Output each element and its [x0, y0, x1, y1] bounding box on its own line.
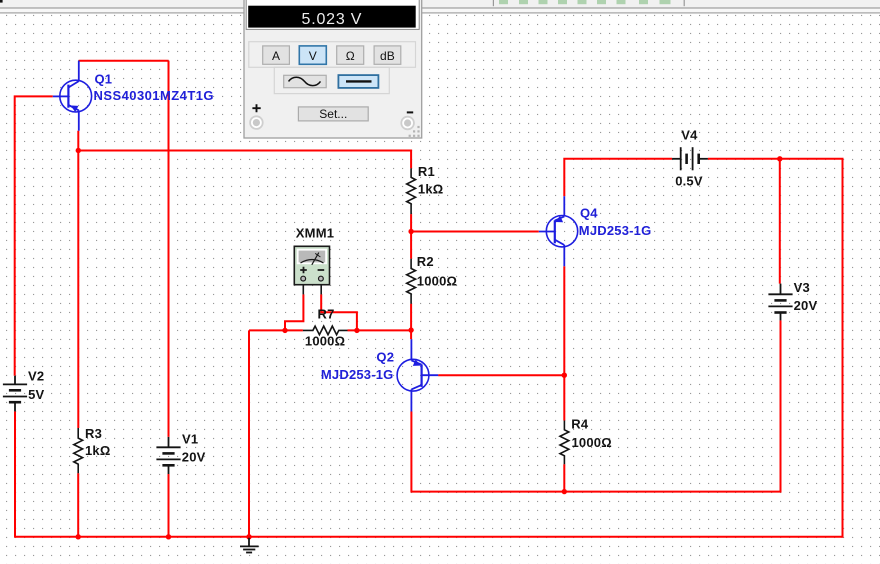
wire R4 bottom: [563, 464, 565, 491]
wire Q1 collector top loop: [79, 60, 169, 62]
svg-text:MJD253-1G: MJD253-1G: [579, 223, 652, 238]
svg-text:Ω: Ω: [346, 49, 355, 63]
battery V1: [156, 437, 180, 474]
battery V4: [672, 147, 708, 170]
svg-text:V1: V1: [182, 431, 198, 446]
button Set...: [298, 107, 368, 121]
svg-text:5.023 V: 5.023 V: [302, 11, 363, 28]
svg-text:1kΩ: 1kΩ: [85, 443, 110, 458]
junction XMM1 right on mid rail: [354, 328, 359, 333]
svg-text:R1: R1: [418, 164, 435, 179]
svg-text:V2: V2: [28, 369, 44, 384]
wire V4 left to Q4 top: [564, 159, 672, 196]
battery V2: [3, 376, 27, 412]
svg-text:dB: dB: [380, 49, 395, 63]
wire main mid rail left of R7: [249, 329, 303, 331]
resize grip: [409, 126, 420, 137]
resistor R7: [303, 326, 348, 335]
junction Q2 base on Q4-R4 vertical: [562, 373, 567, 378]
svg-text:R7: R7: [318, 307, 335, 322]
wire V1 riser: [168, 61, 170, 437]
svg-text:5V: 5V: [28, 387, 44, 402]
junction R1-R2-Q4 base node: [408, 229, 413, 234]
svg-text:V: V: [309, 49, 317, 63]
wire R1 bottom to R2 top: [410, 214, 412, 259]
multimeter display bezel: [246, 0, 419, 29]
svg-text:Q1: Q1: [95, 71, 113, 86]
svg-text:1000Ω: 1000Ω: [417, 273, 457, 288]
resistor R4: [560, 421, 569, 465]
multimeter display: [248, 6, 416, 28]
button A: [263, 46, 290, 64]
svg-text:0.5V: 0.5V: [675, 173, 703, 188]
wire R2 bottom to Q2 collector: [410, 304, 412, 340]
plus terminal label: [252, 104, 260, 112]
wire R3 bottom: [77, 473, 79, 537]
junction R2 bottom / mid rail: [408, 327, 413, 332]
wire ground riser: [248, 330, 250, 536]
svg-text:1000Ω: 1000Ω: [572, 435, 612, 450]
junction ground bottom rail: [246, 534, 251, 539]
transistor Q1: [53, 61, 92, 131]
svg-text:V4: V4: [681, 127, 698, 142]
junction V1 bottom rail: [166, 534, 171, 539]
button dB: [374, 46, 401, 64]
wire Q4 base to R1-R2 node: [411, 231, 539, 233]
wire V1 bottom: [168, 474, 170, 537]
wire main mid rail right of R7: [348, 329, 412, 331]
minus terminal jack: [401, 117, 414, 130]
junction Q1 emitter node: [76, 148, 81, 153]
button DC (selected): [338, 75, 378, 88]
wire Q1 emitter node to R3 top: [77, 151, 79, 429]
svg-text:20V: 20V: [794, 298, 818, 313]
button sine: [284, 75, 327, 87]
wire top right to V4: [708, 158, 844, 160]
junction R3 bottom rail: [76, 534, 81, 539]
toolbar strip (cut off at top): [0, 0, 880, 14]
resistor R3: [74, 428, 83, 473]
resistor R2: [407, 259, 416, 304]
junction XMM1 left on mid rail: [282, 328, 287, 333]
svg-text:R2: R2: [417, 254, 434, 269]
svg-text:NSS40301MZ4T1G: NSS40301MZ4T1G: [94, 88, 214, 103]
multimeter dialog window: [244, 0, 422, 138]
svg-text:20V: 20V: [182, 450, 206, 465]
svg-text:A: A: [272, 49, 280, 63]
button Ohm: [337, 46, 364, 64]
wire Q2 base to vertical: [438, 374, 564, 376]
mode group box: [249, 42, 416, 68]
junction R4 bottom on loop: [562, 489, 567, 494]
svg-text:MJD253-1G: MJD253-1G: [321, 367, 394, 382]
svg-text:1kΩ: 1kΩ: [418, 182, 443, 197]
wire Q1 emitter node to R1 top: [78, 151, 411, 169]
transistor Q2: [397, 339, 438, 411]
svg-text:Set...: Set...: [319, 107, 347, 121]
wire Q1 base to V2 top: [15, 96, 53, 375]
wire V2 bottom down: [14, 411, 16, 536]
wire V3 bottom loop to Q2 emitter: [411, 320, 780, 491]
minus terminal label: [407, 111, 413, 113]
wire bottom rail: [14, 536, 843, 538]
wire right rail: [842, 159, 844, 538]
svg-text:V3: V3: [794, 280, 810, 295]
resistor R1: [407, 168, 416, 214]
wire Q4 bottom to R4 top: [563, 266, 565, 420]
junction V3 branch on top rail: [777, 156, 782, 161]
svg-text:1000Ω: 1000Ω: [305, 334, 345, 349]
multimeter XMM1 icon: [294, 246, 329, 294]
svg-text:Q4: Q4: [580, 205, 598, 220]
wire Q1 emitter red segment: [77, 131, 79, 151]
transistor Q4: [539, 196, 578, 266]
svg-text:Q2: Q2: [376, 350, 394, 365]
plus terminal jack: [250, 116, 263, 129]
svg-text:R3: R3: [85, 426, 102, 441]
button V (selected): [299, 46, 326, 64]
wire V3 top branch: [779, 159, 781, 284]
signal group box: [274, 67, 389, 93]
wire XMM1 right terminal drop: [321, 294, 357, 330]
svg-text:R4: R4: [571, 416, 589, 431]
ground: [240, 538, 259, 553]
battery V3: [768, 284, 792, 321]
svg-text:XMM1: XMM1: [296, 226, 334, 241]
wire XMM1 left terminal drop: [285, 294, 303, 330]
